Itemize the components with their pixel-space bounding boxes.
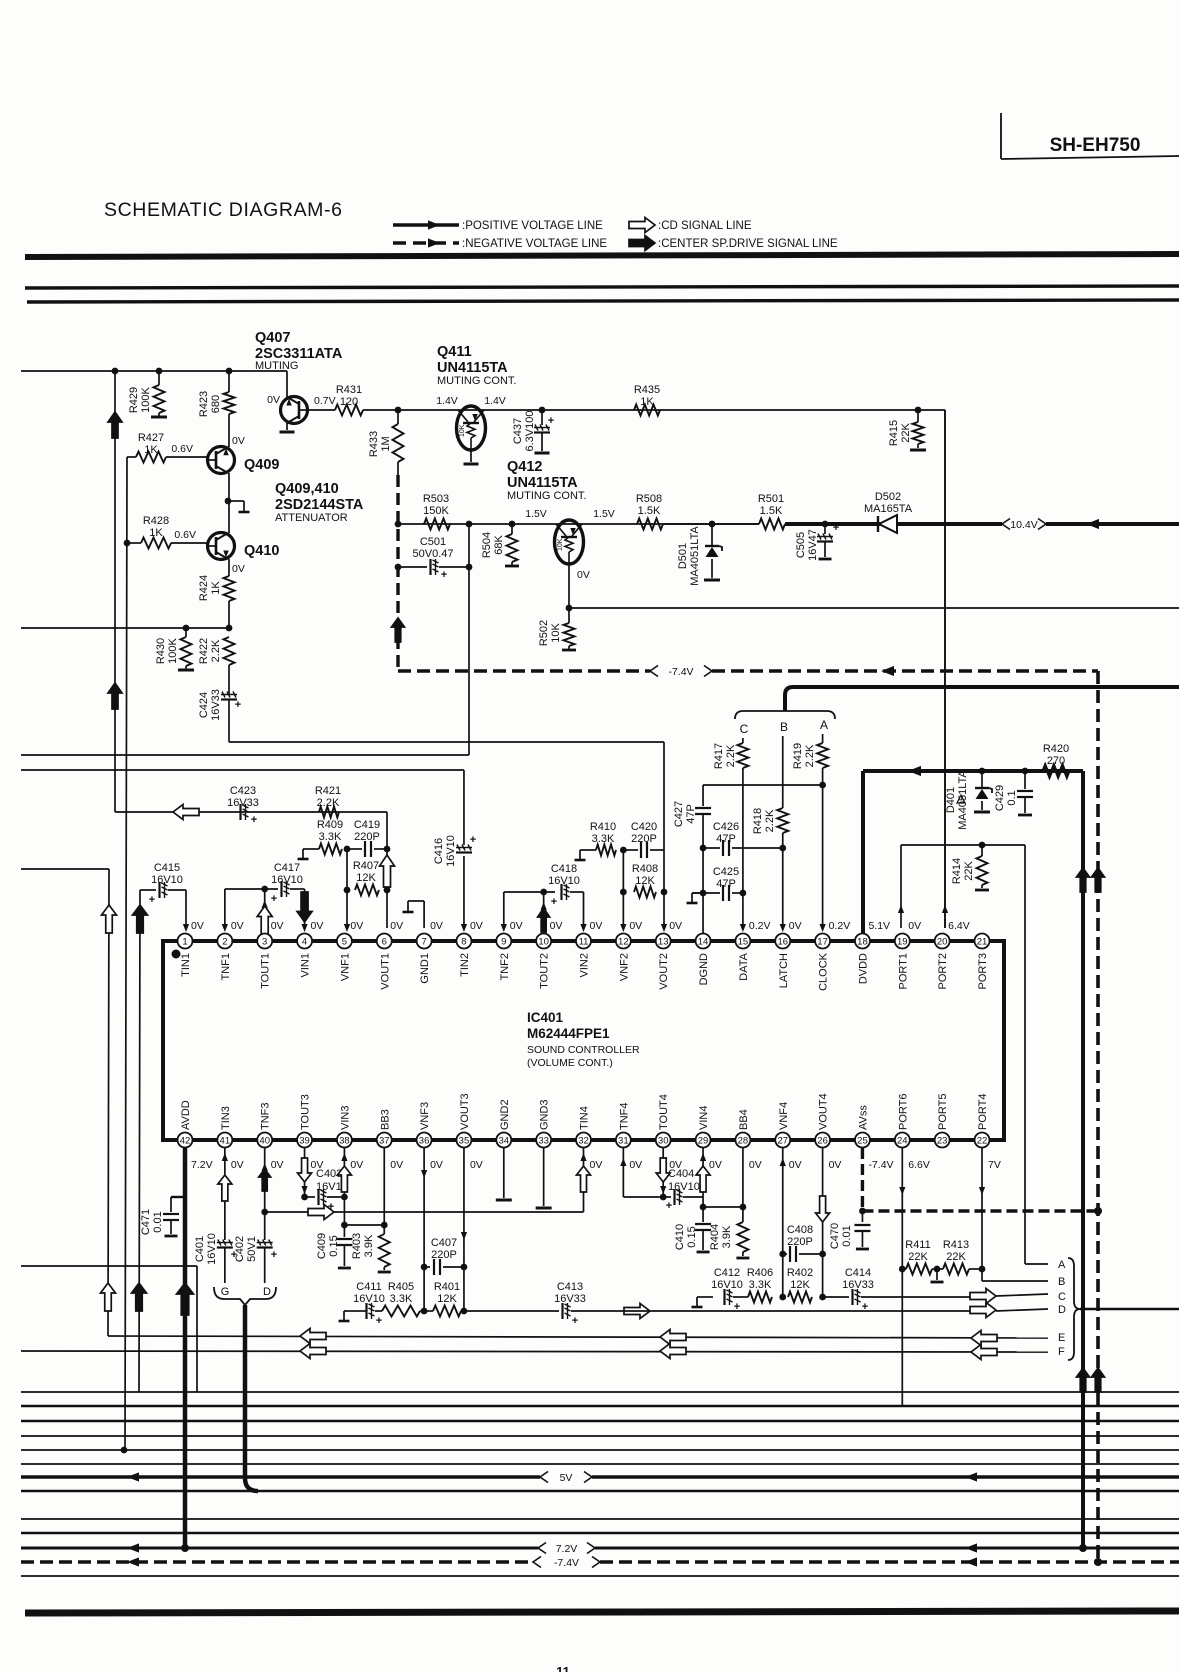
- node F line label: [1058, 1346, 1065, 1358]
- svg-text:-7.4V: -7.4V: [554, 1557, 579, 1569]
- svg-text:28: 28: [738, 1135, 749, 1146]
- node dashed-R503: [395, 521, 402, 528]
- svg-text:0.01: 0.01: [152, 1211, 164, 1232]
- svg-text:6.6V: 6.6V: [908, 1159, 930, 1171]
- wire node C column: [742, 738, 744, 743]
- svg-text:0V: 0V: [789, 920, 802, 932]
- svg-text:16V10: 16V10: [711, 1279, 743, 1291]
- svg-text:+: +: [862, 1301, 868, 1313]
- svg-text:E: E: [1058, 1332, 1065, 1344]
- svg-text:0V: 0V: [629, 920, 642, 932]
- svg-text:12K: 12K: [635, 875, 655, 887]
- svg-text:47P: 47P: [685, 804, 697, 824]
- capacitor C413: [461, 1281, 1048, 1327]
- svg-text:2.2K: 2.2K: [804, 744, 816, 767]
- svg-text:(VOLUME CONT.): (VOLUME CONT.): [527, 1057, 613, 1069]
- node dashed-7.4V junction: [1094, 1558, 1102, 1566]
- svg-text:0.15: 0.15: [686, 1226, 698, 1247]
- svg-text:C414: C414: [845, 1267, 871, 1279]
- svg-text::POSITIVE VOLTAGE LINE: :POSITIVE VOLTAGE LINE: [462, 220, 603, 232]
- wire bus -7.4V dashed: [21, 1557, 1179, 1569]
- svg-text:TNF3: TNF3: [260, 1103, 272, 1131]
- wire rail corner to PORT2 column: [918, 410, 945, 928]
- svg-text:3.3K: 3.3K: [749, 1279, 772, 1291]
- transistor Q412 (digital): [555, 520, 590, 581]
- pin 18 DVDD: [855, 920, 890, 984]
- svg-text:PORT2: PORT2: [937, 953, 949, 989]
- chassis stub GND1: [403, 901, 425, 928]
- capacitor C409: [316, 1225, 352, 1268]
- pin 25 AVss: [855, 1105, 894, 1171]
- svg-text:R503: R503: [423, 493, 449, 505]
- svg-text:42: 42: [180, 1135, 191, 1146]
- capacitor C471: [140, 1197, 185, 1236]
- node Q409 emitter junction: [225, 498, 232, 505]
- node R407 right: [384, 887, 391, 894]
- svg-text:+: +: [666, 1200, 672, 1212]
- pin 9 TNF2: [496, 920, 522, 981]
- svg-text:C407: C407: [431, 1237, 457, 1249]
- svg-text:1K: 1K: [144, 444, 158, 456]
- pin 41 TIN3: [217, 1106, 243, 1171]
- svg-text:GND1: GND1: [419, 953, 431, 984]
- svg-text:12: 12: [618, 936, 629, 947]
- resistor R418: [752, 808, 788, 932]
- svg-text:R410: R410: [590, 821, 616, 833]
- pin 13 VOUT2: [656, 920, 682, 990]
- svg-text:C410: C410: [674, 1224, 686, 1250]
- capacitor C418: [501, 863, 587, 932]
- svg-text:21: 21: [977, 936, 988, 947]
- capacitor C416: [433, 834, 476, 867]
- svg-text:VOUT3: VOUT3: [459, 1093, 471, 1130]
- legend positive voltage line: [393, 220, 603, 232]
- wire bus y1533: [21, 1532, 1179, 1534]
- svg-text:22K: 22K: [963, 861, 975, 881]
- svg-text:15: 15: [738, 936, 749, 947]
- svg-text:R406: R406: [747, 1267, 773, 1279]
- capacitor C417: [222, 862, 305, 932]
- node C429 top: [1022, 768, 1029, 775]
- wire y1266 link: [21, 1266, 197, 1392]
- svg-text:UN4115TA: UN4115TA: [437, 360, 508, 376]
- svg-text:16V33: 16V33: [842, 1279, 874, 1291]
- svg-text:R428: R428: [143, 515, 169, 527]
- svg-text:100K: 100K: [140, 386, 152, 412]
- svg-text:GND2: GND2: [499, 1099, 511, 1130]
- heading SCHEMATIC DIAGRAM-6: [104, 199, 343, 221]
- wire negative dashed -7.4V y671: [398, 666, 1098, 676]
- svg-text:+: +: [833, 522, 839, 534]
- svg-text:R413: R413: [943, 1239, 969, 1251]
- wire y628 from left: [21, 627, 229, 629]
- wire V_B vertical: [114, 371, 116, 812]
- pin 4 VIN1: [297, 920, 323, 977]
- svg-text:0V: 0V: [829, 1159, 842, 1171]
- pin 3 TOUT1: [257, 920, 283, 989]
- capacitor C414: [823, 1267, 970, 1313]
- pin 34 GND2: [496, 1099, 511, 1147]
- svg-text:1K: 1K: [640, 396, 654, 408]
- svg-text:R420: R420: [1043, 743, 1069, 755]
- pin 24 PORT6: [895, 1094, 930, 1171]
- svg-text:PORT6: PORT6: [897, 1094, 909, 1130]
- svg-text:0V: 0V: [271, 1159, 284, 1171]
- svg-text:R405: R405: [388, 1281, 414, 1293]
- pin 35 VOUT3: [456, 1093, 482, 1171]
- svg-text:16V33: 16V33: [210, 689, 222, 721]
- bottom border bar: [25, 1611, 1179, 1613]
- svg-text:100K: 100K: [167, 637, 179, 663]
- wire Q407 base to rail: [308, 395, 336, 410]
- svg-text:2: 2: [222, 936, 227, 947]
- svg-text:7.2V: 7.2V: [191, 1159, 213, 1171]
- pin 17 CLOCK: [815, 920, 850, 991]
- wire bus y1464: [21, 1463, 1179, 1465]
- svg-text:13: 13: [658, 936, 669, 947]
- resistor R404: [709, 1207, 749, 1258]
- svg-text:0V: 0V: [590, 1159, 603, 1171]
- node dashed junction: [1094, 1207, 1102, 1215]
- svg-text:50V0.47: 50V0.47: [413, 548, 454, 560]
- node A line: [1025, 1259, 1066, 1271]
- svg-text:A: A: [1058, 1259, 1066, 1271]
- svg-text:1.4V: 1.4V: [484, 395, 506, 407]
- svg-text:+: +: [551, 896, 557, 908]
- IC401 pin1 mark: [172, 950, 181, 959]
- svg-text:D: D: [1058, 1304, 1066, 1316]
- capacitor C403: [298, 1148, 348, 1213]
- wire V_C vertical: [125, 457, 127, 1450]
- svg-text:C429: C429: [994, 785, 1006, 811]
- svg-text:0.1: 0.1: [1006, 790, 1018, 805]
- resistor R407: [353, 860, 379, 896]
- legend center sp drive signal line: [629, 236, 838, 251]
- wire Q409 emitter to Q410 collector: [228, 473, 230, 533]
- svg-text:R435: R435: [634, 384, 660, 396]
- svg-text:VNF2: VNF2: [618, 953, 630, 981]
- svg-text:1M: 1M: [380, 436, 392, 451]
- svg-text:7: 7: [421, 936, 426, 947]
- node D401 top: [979, 768, 986, 775]
- wire base rail y410: [363, 409, 918, 411]
- svg-text:6: 6: [382, 936, 387, 947]
- svg-text:12K: 12K: [790, 1279, 810, 1291]
- svg-text:R407: R407: [353, 860, 379, 872]
- svg-text:R409: R409: [317, 819, 343, 831]
- wire node B column: [782, 736, 784, 808]
- svg-text:0V: 0V: [430, 1159, 443, 1171]
- svg-text:+: +: [441, 569, 447, 581]
- svg-text:Q407: Q407: [255, 330, 290, 346]
- svg-text:C424: C424: [198, 692, 210, 718]
- IC401 outline: [163, 941, 1004, 1140]
- svg-text:1.5K: 1.5K: [638, 505, 661, 517]
- svg-text:TOUT1: TOUT1: [260, 953, 272, 989]
- wire VNF4 column: [779, 1148, 786, 1300]
- resistor R423: [198, 371, 235, 417]
- capacitor C411: [353, 1281, 385, 1327]
- capacitor C429: [994, 771, 1033, 815]
- pin 32 TIN4: [576, 1106, 602, 1171]
- resistor R413: [943, 1239, 982, 1275]
- svg-text:3.9K: 3.9K: [721, 1225, 733, 1248]
- title block box SH-EH750: [1001, 113, 1179, 159]
- node R422 top: [226, 625, 233, 632]
- svg-text:R501: R501: [758, 493, 784, 505]
- wire thick 10.4V line: [785, 519, 1179, 529]
- svg-text:C412: C412: [714, 1267, 740, 1279]
- resistor R429: [128, 371, 167, 417]
- svg-text:BB4: BB4: [738, 1109, 750, 1130]
- svg-text:C419: C419: [354, 819, 380, 831]
- svg-text:+: +: [328, 1201, 334, 1213]
- wire TOUT2 column: [538, 892, 550, 932]
- svg-text:1.5K: 1.5K: [760, 505, 783, 517]
- pin 11 VIN2: [576, 920, 602, 977]
- svg-text:16V47: 16V47: [807, 529, 819, 561]
- node rail-R423: [226, 368, 233, 375]
- svg-text:0V: 0V: [908, 920, 921, 932]
- label voltage 1.4V left: [436, 395, 458, 407]
- svg-text:25: 25: [857, 1135, 868, 1146]
- resistor R503: [423, 493, 450, 530]
- node A wire y785: [819, 782, 826, 789]
- svg-text:DVDD: DVDD: [857, 953, 869, 984]
- capacitor C408: [783, 1224, 826, 1262]
- svg-text:C471: C471: [140, 1209, 152, 1235]
- wire E line: [108, 1329, 1048, 1346]
- node C label: [1058, 1291, 1066, 1303]
- resistor R428: [124, 515, 208, 549]
- resistor R419: [792, 743, 828, 932]
- pin 7 GND1: [417, 920, 443, 984]
- svg-text:VIN2: VIN2: [579, 953, 591, 977]
- svg-text:C425: C425: [713, 866, 739, 878]
- capacitor C401: [194, 1148, 237, 1283]
- svg-text:220P: 220P: [631, 833, 657, 845]
- svg-text:R427: R427: [138, 432, 164, 444]
- svg-text:0V: 0V: [232, 563, 245, 575]
- svg-text:D401: D401: [945, 787, 957, 813]
- svg-text:12K: 12K: [356, 872, 376, 884]
- svg-text:0.6V: 0.6V: [174, 529, 196, 541]
- label Q407: [255, 330, 343, 372]
- svg-text:24: 24: [897, 1135, 908, 1146]
- svg-text:Q411: Q411: [437, 344, 472, 360]
- svg-text:C418: C418: [551, 863, 577, 875]
- svg-text:270: 270: [1047, 755, 1065, 767]
- label IC401: [527, 1010, 640, 1069]
- capacitor C505: [795, 521, 839, 561]
- capacitor C407: [424, 1237, 467, 1275]
- svg-text:8: 8: [461, 936, 466, 947]
- resistor R427: [127, 432, 208, 463]
- wire bus y1576: [21, 1575, 1179, 1577]
- svg-text:TNF2: TNF2: [499, 953, 511, 981]
- svg-text:16V10: 16V10: [668, 1181, 700, 1193]
- wire BB4 column: [703, 1148, 746, 1210]
- svg-text:DGND: DGND: [698, 953, 710, 985]
- pin 20 PORT2: [935, 920, 970, 989]
- resistor R424: [198, 559, 235, 628]
- pin 15 DATA: [735, 920, 770, 981]
- top bus bar thick: [25, 254, 1179, 257]
- legend CD signal line: [629, 218, 752, 233]
- resistor R504: [481, 521, 519, 566]
- wire VIN4 column: [696, 1148, 710, 1210]
- svg-text:16V10: 16V10: [206, 1233, 218, 1265]
- svg-text:22: 22: [977, 1135, 988, 1146]
- svg-text:B: B: [780, 720, 788, 734]
- svg-text:0V: 0V: [629, 1159, 642, 1171]
- svg-text:D502: D502: [875, 491, 901, 503]
- brace C B A: [735, 711, 835, 736]
- svg-text:2.2K: 2.2K: [210, 639, 222, 662]
- pin 19 PORT1: [895, 920, 921, 989]
- label Q409,410: [275, 481, 364, 524]
- capacitor C420: [623, 821, 664, 858]
- svg-text:GND3: GND3: [539, 1099, 551, 1130]
- capacitor C426: [703, 821, 786, 856]
- svg-text:19: 19: [897, 936, 908, 947]
- svg-text:+: +: [376, 1315, 382, 1327]
- wire VNF3 column: [421, 1148, 428, 1314]
- wire TOUT1 column: [257, 889, 272, 936]
- label -7.4V top: [650, 666, 712, 678]
- wire GND2 stub: [496, 1148, 512, 1200]
- svg-text:LATCH: LATCH: [778, 953, 790, 988]
- resistor R402: [787, 1267, 813, 1303]
- svg-text:R403: R403: [351, 1233, 363, 1259]
- legend negative voltage line: [393, 238, 607, 250]
- resistor R415: [888, 410, 926, 450]
- wire bus y1406: [21, 1405, 1179, 1408]
- svg-text:D: D: [263, 1286, 271, 1298]
- pin 10 TOUT2: [536, 920, 562, 989]
- resistor R433: [368, 410, 404, 462]
- svg-text:18: 18: [857, 936, 868, 947]
- svg-text:0V: 0V: [470, 920, 483, 932]
- svg-text:C505: C505: [795, 532, 807, 558]
- capacitor C402: [234, 1148, 277, 1283]
- svg-text:MA4051LTA: MA4051LTA: [957, 770, 969, 830]
- resistor R508: [636, 493, 663, 530]
- wire R414 rail y845: [901, 844, 1025, 846]
- label voltage 1.4V right: [484, 395, 506, 407]
- capacitor C425: [687, 866, 747, 903]
- svg-text:0V: 0V: [267, 394, 280, 406]
- svg-text:Q412: Q412: [507, 459, 542, 475]
- resistor R403: [351, 1225, 391, 1272]
- svg-text:TNF4: TNF4: [618, 1103, 630, 1131]
- svg-text:C404: C404: [668, 1168, 694, 1180]
- svg-text:3: 3: [262, 936, 267, 947]
- node R410-C420: [620, 847, 627, 854]
- svg-text:0V: 0V: [789, 1159, 802, 1171]
- svg-text:C423: C423: [230, 785, 256, 797]
- ground stub R411-R413: [931, 1266, 944, 1282]
- svg-text:TIN4: TIN4: [579, 1106, 591, 1130]
- svg-text:120: 120: [340, 396, 358, 408]
- svg-text:1K: 1K: [210, 581, 222, 595]
- arrow on V_B upper: [108, 412, 122, 438]
- svg-text:R423: R423: [198, 391, 210, 417]
- wire VOUT3 column: [461, 1148, 468, 1314]
- resistor R410: [575, 821, 617, 860]
- svg-text:C437: C437: [512, 418, 524, 444]
- svg-text:31: 31: [618, 1135, 629, 1146]
- node R409-C419: [344, 846, 351, 853]
- wire C423 rail: [115, 805, 387, 820]
- node AVDD-7.2V: [181, 1544, 189, 1552]
- svg-text:+: +: [734, 1301, 740, 1313]
- capacitor C404: [656, 1148, 703, 1212]
- svg-text:SH-EH750: SH-EH750: [1050, 135, 1141, 156]
- resistor R430: [155, 628, 194, 670]
- svg-text:C470: C470: [829, 1223, 841, 1249]
- svg-text:C501: C501: [420, 536, 446, 548]
- svg-text:7V: 7V: [988, 1159, 1001, 1171]
- svg-text:23: 23: [937, 1135, 948, 1146]
- diode D501: [677, 524, 722, 586]
- svg-text:2.2K: 2.2K: [725, 744, 737, 767]
- svg-text:36: 36: [419, 1135, 430, 1146]
- svg-text:0.7V: 0.7V: [314, 395, 336, 407]
- svg-text:22K: 22K: [900, 423, 912, 443]
- capacitor C423: [227, 785, 259, 826]
- svg-text:R404: R404: [709, 1224, 721, 1250]
- pin 21 PORT3: [975, 934, 990, 990]
- wire AVDD thick: [177, 1148, 194, 1548]
- svg-text:+: +: [572, 1315, 578, 1327]
- pin 22 PORT4: [975, 1094, 1001, 1171]
- svg-text:MUTING CONT.: MUTING CONT.: [437, 375, 516, 387]
- pin 30 TOUT4: [656, 1094, 682, 1171]
- wire bus y1491: [21, 1490, 1179, 1493]
- svg-text:16V33: 16V33: [227, 797, 259, 809]
- svg-text:10: 10: [538, 936, 549, 947]
- pin 37 BB3: [377, 1109, 403, 1171]
- svg-text:PORT4: PORT4: [977, 1094, 989, 1130]
- svg-text:-7.4V: -7.4V: [868, 1159, 893, 1171]
- wire center-sp thick y687: [785, 687, 1179, 711]
- svg-text:C411: C411: [356, 1281, 381, 1293]
- svg-text:C401: C401: [194, 1236, 206, 1262]
- svg-text:MUTING: MUTING: [255, 360, 298, 372]
- svg-text:10K: 10K: [557, 538, 564, 551]
- svg-text:SCHEMATIC DIAGRAM-6: SCHEMATIC DIAGRAM-6: [104, 199, 343, 221]
- svg-text:Q409: Q409: [244, 457, 279, 473]
- wire TNF4 column: [620, 1148, 663, 1197]
- wire VIN3 column: [337, 1148, 351, 1228]
- svg-text:35: 35: [459, 1135, 470, 1146]
- wire bus y1421: [21, 1420, 1179, 1423]
- node R414 top: [979, 842, 986, 849]
- pin 8 TIN2: [456, 920, 482, 977]
- svg-text:26: 26: [817, 1135, 828, 1146]
- svg-text:R408: R408: [632, 863, 658, 875]
- svg-text:VNF4: VNF4: [778, 1102, 790, 1130]
- svg-text:DATA: DATA: [738, 952, 750, 980]
- svg-text:5: 5: [342, 936, 347, 947]
- resistor R422: [198, 637, 235, 694]
- svg-text:+: +: [271, 1249, 277, 1261]
- wire node A column: [822, 734, 824, 743]
- svg-text:0.01: 0.01: [841, 1225, 853, 1246]
- arrow on V_B lower: [108, 683, 122, 709]
- diode D401: [945, 770, 992, 830]
